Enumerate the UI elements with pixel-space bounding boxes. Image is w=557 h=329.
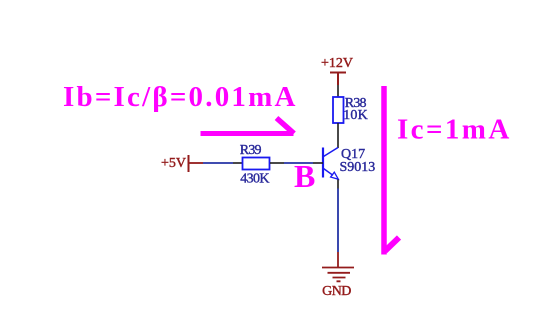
- svg-text:10K: 10K: [343, 108, 368, 123]
- wire: pin stub from +12V to R38: [337, 85, 339, 97]
- svg-text:+5V: +5V: [161, 156, 186, 171]
- wire: emitter black pin stub: [337, 180, 339, 189]
- svg-text:Ib=Ic/β=0.01mA: Ib=Ic/β=0.01mA: [63, 81, 298, 113]
- transistor Q17 emitter arrowhead: [331, 172, 339, 179]
- svg-text:R39: R39: [240, 143, 262, 158]
- power port +12V bar symbol: [330, 72, 346, 86]
- transistor Q17 emitter diagonal: [324, 169, 334, 176]
- resistor R38 body: [333, 97, 344, 123]
- wire: +5V to R39 (blue net): [203, 162, 233, 164]
- svg-text:B: B: [294, 158, 315, 194]
- annotation arrow (horizontal, base current): [201, 131, 294, 136]
- svg-text:GND: GND: [322, 284, 351, 299]
- wire: R39 right pin stub: [270, 162, 284, 164]
- transistor Q17 base bar: [322, 148, 324, 178]
- wire: red stub into ground symbol: [337, 252, 339, 268]
- resistor R39 body: [243, 158, 270, 170]
- svg-text:S9013: S9013: [340, 160, 376, 175]
- svg-text:Ic=1mA: Ic=1mA: [397, 114, 512, 146]
- wire: emitter to ground (blue net): [337, 189, 339, 253]
- wire: R38 bottom pin to Q17 collector: [337, 123, 339, 148]
- wire: red stub from +5V port: [189, 162, 204, 164]
- wire: base black pin stub: [313, 162, 323, 164]
- svg-text:+12V: +12V: [321, 56, 353, 71]
- transistor Q17 collector diagonal: [324, 148, 339, 157]
- svg-text:430K: 430K: [240, 172, 269, 187]
- wire: R39 to Q17 base (blue net): [284, 162, 313, 164]
- annotation arrow (vertical, collector current): [381, 86, 387, 255]
- power port +5V bar symbol: [188, 155, 190, 172]
- ground symbol bars: [322, 268, 354, 282]
- wire: R39 left pin stub: [233, 162, 242, 164]
